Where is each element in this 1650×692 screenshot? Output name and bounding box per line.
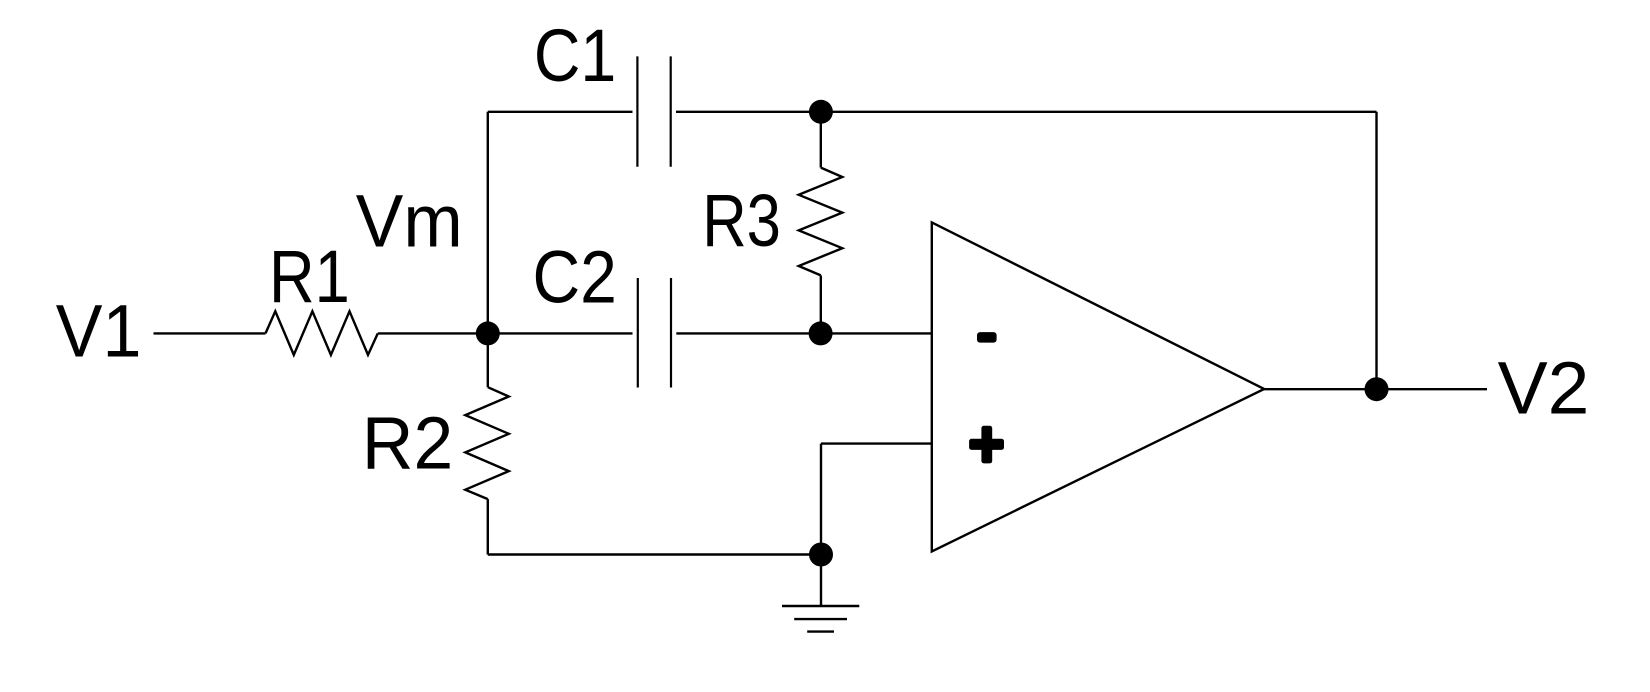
node Vm junction dot (476, 321, 500, 345)
op-amp plus sign (969, 426, 1004, 464)
svg-text:R2: R2 (362, 402, 453, 485)
node C2-R3 junction dot (809, 321, 833, 345)
wire plus input horizontal (821, 442, 932, 444)
wire R1 to node Vm (378, 332, 633, 334)
ground (782, 555, 859, 632)
svg-text:R3: R3 (702, 179, 781, 262)
resistor R3 (799, 112, 843, 334)
node C1-R3 junction dot (809, 100, 833, 124)
op-amp minus sign (977, 332, 997, 343)
resistor R1 (266, 311, 378, 355)
wire top rail C1 to feedback corner (676, 111, 1377, 113)
node output junction dot (1365, 377, 1389, 401)
wire C2 right to op-amp minus input (676, 332, 932, 334)
svg-text:V1: V1 (56, 290, 142, 373)
wire feedback vertical (1375, 112, 1377, 389)
resistor R2 (465, 333, 509, 554)
svg-text:C2: C2 (533, 236, 617, 319)
node ground junction dot (809, 543, 833, 567)
wire bottom rail (488, 553, 821, 555)
op-amp U1 (932, 222, 1264, 551)
wire top rail left to C1 (488, 111, 633, 113)
wire V1 lead (154, 332, 266, 334)
capacitor C2 (638, 278, 671, 388)
svg-text:C1: C1 (534, 14, 616, 97)
svg-text:Vm: Vm (356, 179, 463, 262)
wire Vm vertical up to top rail (487, 112, 489, 334)
capacitor C1 (637, 56, 670, 166)
svg-text:V2: V2 (1498, 347, 1590, 430)
wire plus input vertical (820, 444, 822, 555)
wire op-amp output (1264, 388, 1487, 390)
svg-text:R1: R1 (269, 235, 350, 318)
